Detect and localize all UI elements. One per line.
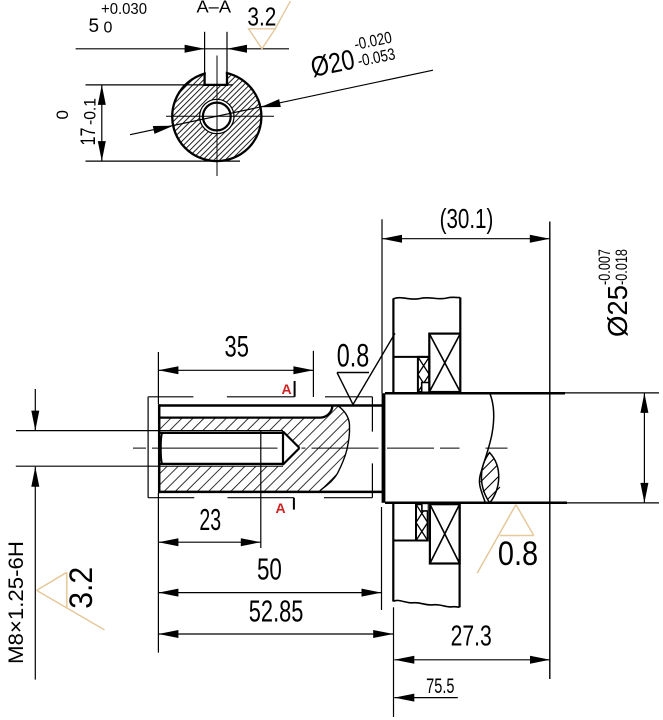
svg-text:3.2: 3.2 bbox=[247, 2, 276, 32]
svg-text:27.3: 27.3 bbox=[451, 621, 492, 653]
svg-text:5: 5 bbox=[89, 16, 100, 37]
svg-text:0.8: 0.8 bbox=[498, 535, 538, 573]
svg-text:52.85: 52.85 bbox=[249, 594, 304, 629]
svg-text:Ø25: Ø25 bbox=[602, 285, 633, 337]
svg-text:A: A bbox=[276, 500, 286, 516]
svg-text:M8×1.25-6H: M8×1.25-6H bbox=[5, 541, 28, 664]
svg-text:75.5: 75.5 bbox=[426, 675, 454, 698]
svg-text:-0.1: -0.1 bbox=[81, 98, 100, 125]
svg-text:35: 35 bbox=[225, 331, 249, 364]
svg-text:A: A bbox=[282, 381, 292, 397]
svg-text:50: 50 bbox=[257, 552, 282, 587]
svg-text:A–A: A–A bbox=[197, 0, 232, 17]
svg-text:-0.007: -0.007 bbox=[596, 249, 614, 285]
svg-text:0: 0 bbox=[104, 20, 113, 37]
svg-text:-0.018: -0.018 bbox=[613, 249, 631, 285]
svg-text:3.2: 3.2 bbox=[63, 567, 99, 609]
svg-text:0: 0 bbox=[53, 110, 72, 119]
svg-text:(30.1): (30.1) bbox=[440, 203, 494, 234]
svg-text:+0.030: +0.030 bbox=[101, 1, 147, 18]
svg-text:17: 17 bbox=[77, 128, 100, 146]
svg-text:0.8: 0.8 bbox=[337, 337, 370, 373]
svg-text:23: 23 bbox=[199, 502, 221, 537]
